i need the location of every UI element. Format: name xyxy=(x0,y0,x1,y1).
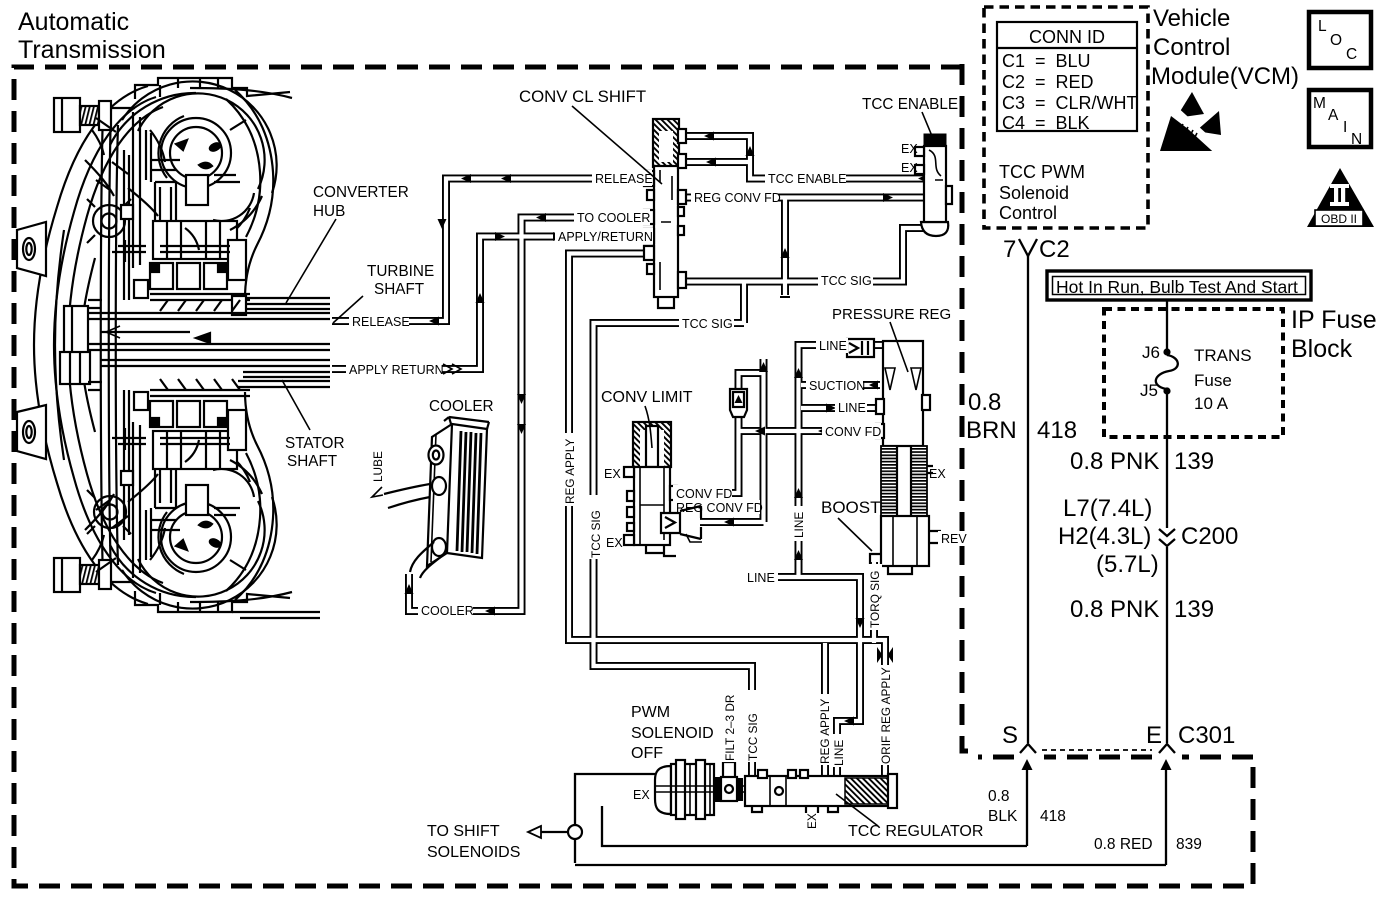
svg-text:CONV FD: CONV FD xyxy=(825,425,881,439)
svg-text:H2(4.3L): H2(4.3L) xyxy=(1058,523,1151,550)
pipe TO COOLER / COOLER return run xyxy=(409,218,656,612)
svg-text:C2 = RED: C2 = RED xyxy=(1002,72,1094,92)
vertical labels xyxy=(368,433,893,829)
housing top cap xyxy=(135,78,290,99)
svg-text:J5: J5 xyxy=(1140,381,1158,400)
wire 0.8 RED 839 up to E xyxy=(1165,762,1167,865)
svg-text:139: 139 xyxy=(1174,596,1214,623)
junction J5 dot xyxy=(1163,387,1170,394)
svg-text:CONN ID: CONN ID xyxy=(1029,27,1105,47)
svg-text:S: S xyxy=(1002,722,1018,749)
svg-text:418: 418 xyxy=(1040,808,1066,825)
svg-text:SOLENOIDS: SOLENOIDS xyxy=(427,844,520,861)
svg-text:BRN: BRN xyxy=(966,417,1017,444)
pipe REG CONV FD vertical stub xyxy=(781,199,789,295)
svg-text:N: N xyxy=(1351,131,1362,148)
svg-text:CONVERTER: CONVERTER xyxy=(313,184,409,201)
junction J6 dot xyxy=(1163,348,1170,355)
arrow up at E xyxy=(1161,759,1172,770)
flexplate verticals xyxy=(101,108,111,582)
svg-text:Block: Block xyxy=(1291,335,1353,363)
svg-text:BLK: BLK xyxy=(988,808,1018,825)
svg-text:SHAFT: SHAFT xyxy=(374,281,424,298)
check valve REG CONV FD (redrawn over labels) xyxy=(661,506,702,542)
svg-text:Control: Control xyxy=(999,203,1057,223)
pipe REG CONV FD from check valve xyxy=(700,518,764,526)
pointer lines xyxy=(282,106,932,826)
valve PRESSURE REG xyxy=(876,341,933,516)
svg-text:RELEASE: RELEASE xyxy=(352,315,410,329)
bearing circles xyxy=(93,205,125,237)
pipe APPLY/RETURN run xyxy=(332,237,656,370)
svg-text:Automatic: Automatic xyxy=(18,8,129,36)
top torus swirl xyxy=(122,81,277,246)
pipe LINE bottom run to regulator xyxy=(777,577,860,776)
ball check CONV FD xyxy=(730,389,747,417)
svg-text:PWM: PWM xyxy=(631,704,670,721)
svg-text:HUB: HUB xyxy=(313,203,345,220)
LOC box xyxy=(1309,12,1371,68)
IP fuse block dashed box xyxy=(1104,309,1283,437)
MAIN box xyxy=(1309,90,1371,147)
misc structure strokes xyxy=(85,112,240,578)
CONN ID table xyxy=(997,22,1138,133)
svg-text:C: C xyxy=(1346,46,1357,63)
svg-text:EX: EX xyxy=(633,788,650,802)
svg-text:LUBE: LUBE xyxy=(371,451,385,482)
converter outer shell contours xyxy=(34,86,148,604)
svg-text:TORQ SIG: TORQ SIG xyxy=(868,571,882,628)
svg-text:TRANS: TRANS xyxy=(1194,346,1252,365)
svg-text:BOOST: BOOST xyxy=(821,498,881,517)
left lugs with holes xyxy=(17,222,46,459)
pipe CONV FD to pressure reg xyxy=(739,427,884,435)
svg-text:0.8 PNK: 0.8 PNK xyxy=(1070,448,1159,475)
connector C2 Y symbol xyxy=(1019,239,1037,256)
svg-text:Module(VCM): Module(VCM) xyxy=(1151,63,1299,90)
terminal E chevron xyxy=(1159,744,1175,753)
svg-text:Fuse: Fuse xyxy=(1194,371,1232,390)
svg-text:418: 418 xyxy=(1037,417,1077,444)
pipe top loop lower leg xyxy=(678,158,750,166)
connector C200 chevrons xyxy=(1161,528,1173,547)
svg-text:Control: Control xyxy=(1153,34,1230,61)
svg-text:E: E xyxy=(1146,722,1162,749)
svg-text:C4 = BLK: C4 = BLK xyxy=(1002,113,1090,133)
extra clutch pack strips xyxy=(88,130,151,560)
pipe REG APPLY branch to regulator port xyxy=(821,643,829,776)
svg-text:0.8: 0.8 xyxy=(988,788,1010,805)
pipe TCC SIG branch drop xyxy=(740,281,748,323)
svg-text:TCC PWM: TCC PWM xyxy=(999,162,1085,182)
svg-text:7: 7 xyxy=(1003,236,1016,263)
pipe LINE riser to pressure reg xyxy=(799,345,884,577)
VCM dashed box xyxy=(984,7,1148,228)
svg-text:0.8 RED: 0.8 RED xyxy=(1094,836,1153,853)
solenoid PWM SOLENOID OFF xyxy=(655,760,745,819)
bolt top xyxy=(54,98,111,592)
svg-text:TO SHIFT: TO SHIFT xyxy=(427,823,500,840)
Hot In Run box xyxy=(1047,271,1311,300)
svg-text:C1 = BLU: C1 = BLU xyxy=(1002,51,1091,71)
svg-text:SHAFT: SHAFT xyxy=(287,453,337,470)
svg-text:EX: EX xyxy=(604,467,621,481)
svg-text:C3 = CLR/WHT: C3 = CLR/WHT xyxy=(1002,93,1138,113)
wire PWM solenoid feed to E xyxy=(532,774,1166,865)
svg-text:APPLY/RETURN: APPLY/RETURN xyxy=(558,230,653,244)
svg-text:COOLER: COOLER xyxy=(429,398,494,415)
OBD II symbol xyxy=(1307,168,1374,227)
pipe TCC ENABLE with top loop xyxy=(678,136,924,179)
svg-text:OFF: OFF xyxy=(631,745,663,762)
ESD symbol xyxy=(1160,92,1221,151)
pipe CONV FD from conv limit valve xyxy=(670,415,739,493)
pipe TCC SIG from valve bottom to TCC enable valve xyxy=(678,228,924,282)
TRANS fuse xyxy=(1166,300,1168,349)
svg-text:Solenoid: Solenoid xyxy=(999,183,1069,203)
extra shell arcs / swirl detail xyxy=(55,93,262,597)
wire 0.8 BRN 418 from C2 to S xyxy=(1027,256,1029,743)
svg-text:RELEASE: RELEASE xyxy=(595,172,653,186)
svg-text:EX: EX xyxy=(805,813,819,829)
valve CONV CL SHIFT xyxy=(644,119,686,308)
hydraulic pipes: outer black layer xyxy=(332,136,924,776)
svg-text:0.8: 0.8 xyxy=(968,389,1001,416)
shell right side contour xyxy=(235,90,273,298)
svg-text:I: I xyxy=(1343,119,1347,136)
open chevron arrows near APPLY RETURN xyxy=(443,364,461,374)
svg-text:OBD II: OBD II xyxy=(1321,212,1357,226)
wire PWM solenoid return to S xyxy=(602,806,1027,846)
pipe SUCTION port xyxy=(801,381,880,389)
valve BOOST xyxy=(870,516,941,574)
fine dashed connector line S-E xyxy=(1042,749,1152,751)
svg-text:LINE: LINE xyxy=(792,512,806,538)
pipe REG APPLY run to TCC regulator xyxy=(569,254,885,777)
pipe REG CONV FD to TCC enable valve xyxy=(678,194,924,202)
svg-text:CONV FD: CONV FD xyxy=(676,487,732,501)
svg-text:LINE: LINE xyxy=(819,339,847,353)
svg-text:J6: J6 xyxy=(1142,343,1160,362)
stator shaft xyxy=(60,352,330,384)
svg-text:L7(7.4L): L7(7.4L) xyxy=(1063,495,1152,522)
bottom torus swirl xyxy=(122,444,277,609)
svg-text:EX: EX xyxy=(929,467,946,481)
svg-text:REG APPLY: REG APPLY xyxy=(818,699,832,764)
svg-text:APPLY RETURN: APPLY RETURN xyxy=(349,363,444,377)
svg-text:TCC SIG: TCC SIG xyxy=(821,274,872,288)
svg-text:839: 839 xyxy=(1176,836,1202,853)
svg-text:A: A xyxy=(1328,107,1339,124)
svg-text:LINE: LINE xyxy=(832,740,846,766)
svg-text:EX: EX xyxy=(901,142,918,156)
svg-text:IP Fuse: IP Fuse xyxy=(1291,306,1377,334)
svg-text:EX: EX xyxy=(606,536,623,550)
valve CONV LIMIT xyxy=(624,422,677,556)
svg-text:ORIF REG APPLY: ORIF REG APPLY xyxy=(879,667,893,764)
svg-text:TCC ENABLE: TCC ENABLE xyxy=(862,96,958,113)
svg-text:Hot In Run, Bulb Test And Star: Hot In Run, Bulb Test And Start xyxy=(1056,277,1298,297)
svg-text:139: 139 xyxy=(1174,448,1214,475)
wire 0.8 BLK 418 up to S xyxy=(1026,762,1028,846)
pipe TCC SIG long run to regulator xyxy=(594,323,753,776)
svg-text:REV: REV xyxy=(941,532,967,546)
valve TCC ENABLE xyxy=(915,134,952,236)
svg-text:TCC SIG: TCC SIG xyxy=(589,510,603,558)
svg-text:TCC SIG: TCC SIG xyxy=(746,713,760,761)
pipe TORQ SIG from boost valve xyxy=(870,562,878,643)
svg-text:O: O xyxy=(1330,32,1342,49)
pipe conv-fd riser stub xyxy=(760,359,768,522)
svg-text:COOLER: COOLER xyxy=(421,604,474,618)
svg-text:FILT 2–3 DR: FILT 2–3 DR xyxy=(723,695,737,761)
svg-text:Transmission: Transmission xyxy=(18,36,166,64)
svg-text:EX: EX xyxy=(901,161,918,175)
hydraulic pipes: inner white channel layer xyxy=(332,136,924,776)
svg-text:STATOR: STATOR xyxy=(285,435,345,452)
svg-text:C301: C301 xyxy=(1178,722,1235,749)
svg-text:L: L xyxy=(1318,18,1327,35)
wire 0.8 PNK 139 down to E xyxy=(1166,394,1168,743)
splice junction circle xyxy=(568,825,582,839)
svg-text:TCC ENABLE: TCC ENABLE xyxy=(768,172,847,186)
flow direction arrows xyxy=(405,132,929,726)
arrow up at S xyxy=(1022,759,1033,770)
svg-text:LINE: LINE xyxy=(747,571,775,585)
svg-text:10 A: 10 A xyxy=(1194,394,1229,413)
svg-text:TURBINE: TURBINE xyxy=(367,263,434,280)
svg-text:LINE: LINE xyxy=(838,401,866,415)
check valve on LINE at pressure reg xyxy=(847,339,874,357)
open arrow to shift solenoids xyxy=(528,826,541,838)
svg-text:0.8 PNK: 0.8 PNK xyxy=(1070,596,1159,623)
svg-text:TCC SIG: TCC SIG xyxy=(682,317,733,331)
central tower top xyxy=(150,160,250,300)
svg-text:C2: C2 xyxy=(1039,236,1070,263)
svg-text:TO COOLER: TO COOLER xyxy=(577,211,650,225)
turbine shaft xyxy=(64,306,330,357)
svg-text:CONV CL SHIFT: CONV CL SHIFT xyxy=(519,87,646,106)
svg-text:C200: C200 xyxy=(1181,523,1238,550)
svg-text:SUCTION: SUCTION xyxy=(809,379,865,393)
orifice on ORIF REG APPLY xyxy=(877,647,883,663)
svg-text:SOLENOID: SOLENOID xyxy=(631,725,714,742)
converter hub sleeve xyxy=(232,296,330,387)
pipe RELEASE run (valve to turbine shaft) xyxy=(332,179,656,322)
svg-text:M: M xyxy=(1313,95,1326,112)
svg-text:PRESSURE REG: PRESSURE REG xyxy=(832,306,951,323)
svg-text:REG APPLY: REG APPLY xyxy=(563,439,577,504)
svg-text:CONV LIMIT: CONV LIMIT xyxy=(601,389,693,406)
svg-text:REG CONV FD: REG CONV FD xyxy=(694,191,781,205)
svg-text:(5.7L): (5.7L) xyxy=(1096,551,1159,578)
central tower bottom xyxy=(150,390,250,530)
pipe LINE port xyxy=(801,404,883,412)
terminal S chevron xyxy=(1020,744,1036,753)
svg-text:TCC REGULATOR: TCC REGULATOR xyxy=(848,823,983,840)
pipe ball-check top link xyxy=(739,373,764,391)
valve TCC REGULATOR xyxy=(723,762,897,813)
svg-text:Vehicle: Vehicle xyxy=(1153,5,1230,32)
fuse element curve xyxy=(1156,355,1178,389)
